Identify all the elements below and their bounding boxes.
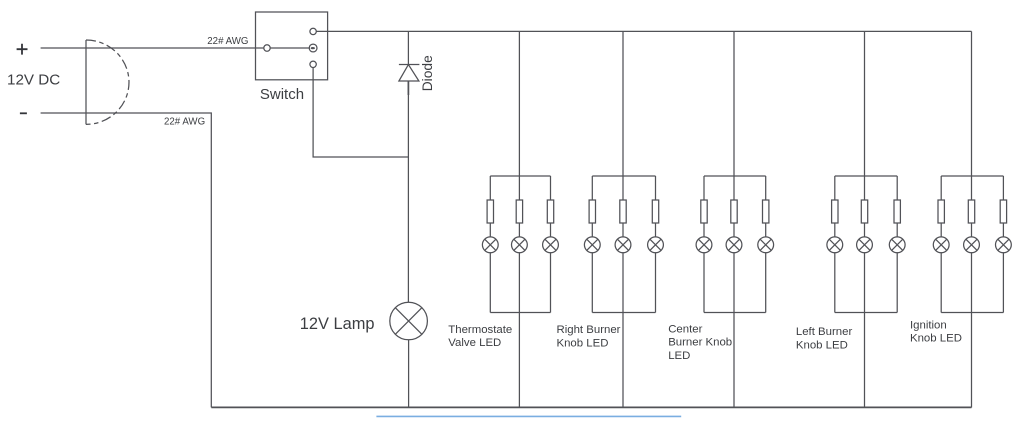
group label Center Burner Knob LED xyxy=(668,323,732,362)
wire ignition knob top rail xyxy=(941,175,1003,177)
LED lamp center burner knob mid xyxy=(726,237,742,253)
switch S1 body xyxy=(256,12,328,80)
wire center burner knob right branch mid xyxy=(765,223,767,237)
svg-text:Burner Knob: Burner Knob xyxy=(668,337,732,349)
wire ignition knob mid branch bottom xyxy=(971,252,973,407)
wire ignition knob right branch mid xyxy=(1002,223,1004,237)
group label Ignition Knob LED xyxy=(910,319,962,344)
fuse center burner knob mid xyxy=(731,200,737,223)
wire center burner knob right branch top xyxy=(765,176,767,200)
wire left burner knob right branch top xyxy=(896,176,898,200)
svg-text:12V Lamp: 12V Lamp xyxy=(300,315,375,333)
fuse thermostate valve mid xyxy=(516,200,522,223)
svg-text:Knob LED: Knob LED xyxy=(796,339,848,351)
wire right burner knob right branch top xyxy=(655,176,657,200)
wire right burner knob left branch bottom xyxy=(591,252,593,312)
wire negative: left run, down, and bottom bus to right end xyxy=(41,113,212,407)
fuse center burner knob left xyxy=(701,200,707,223)
LED lamp thermostate valve right xyxy=(543,237,559,253)
wire thermostate valve mid branch mid xyxy=(518,223,520,237)
wire thermostate valve right branch bottom xyxy=(550,252,552,312)
LED lamp center burner knob left xyxy=(696,237,712,253)
fuse right burner knob left xyxy=(589,200,595,223)
fuse thermostate valve right xyxy=(547,200,553,223)
LED lamp right burner knob mid xyxy=(615,237,631,253)
wire thermostate valve bus from top xyxy=(518,31,520,200)
wire right burner knob bottom rail xyxy=(592,312,655,314)
wire center burner knob left branch mid xyxy=(703,223,705,237)
wire center burner knob bottom rail xyxy=(704,312,766,314)
wire left burner knob bottom rail xyxy=(835,312,897,314)
wire ignition knob left branch top xyxy=(940,176,942,200)
wire left burner knob left branch mid xyxy=(834,223,836,237)
svg-text:22# AWG: 22# AWG xyxy=(164,117,205,128)
wire bottom bus xyxy=(211,406,971,408)
wire right burner knob top rail xyxy=(592,175,655,177)
fuse center burner knob right xyxy=(763,200,769,223)
LED lamp ignition knob mid xyxy=(964,237,980,253)
fuse right burner knob right xyxy=(652,200,658,223)
fuse right burner knob mid xyxy=(620,200,626,223)
wire center burner knob mid branch bottom xyxy=(733,252,735,407)
wire thermostate valve left branch mid xyxy=(489,223,491,237)
wire ignition knob right branch bottom xyxy=(1002,252,1004,312)
fuse left burner knob left xyxy=(832,200,838,223)
fuse left burner knob mid xyxy=(861,200,867,223)
wire ignition knob bus from top xyxy=(971,31,973,200)
wire left burner knob left branch bottom xyxy=(834,252,836,312)
svg-text:Valve LED: Valve LED xyxy=(448,337,501,349)
LED lamp thermostate valve mid xyxy=(512,237,528,253)
LED lamp left burner knob left xyxy=(827,237,843,253)
blue underline xyxy=(376,415,681,417)
wire left burner knob left branch top xyxy=(834,176,836,200)
fuse left burner knob right xyxy=(894,200,900,223)
wire lamp to bottom bus xyxy=(408,340,410,408)
group label Right Burner Knob LED xyxy=(557,324,621,349)
wire center burner knob bus from top xyxy=(733,31,735,200)
wire right burner knob left branch mid xyxy=(591,223,593,237)
diode D1 cathode bar xyxy=(399,64,420,66)
group label Thermostate Valve LED xyxy=(448,324,512,349)
wire right burner knob right branch bottom xyxy=(655,252,657,312)
diode D1 triangle xyxy=(399,65,419,81)
svg-text:Diode: Diode xyxy=(420,55,435,91)
wire center burner knob mid branch mid xyxy=(733,223,735,237)
wire diode to lamp xyxy=(407,81,409,302)
switch pin right-top xyxy=(310,28,316,34)
fuse ignition knob right xyxy=(1000,200,1006,223)
minus terminal symbol xyxy=(20,112,27,114)
wire left burner knob mid branch bottom xyxy=(864,252,866,407)
wire positive from + to switch pin xyxy=(41,47,264,49)
plus terminal symbol xyxy=(17,44,28,55)
LED lamp center burner knob right xyxy=(758,237,774,253)
wire ignition knob left branch bottom xyxy=(940,252,942,312)
lamp DS1 12V symbol xyxy=(390,302,428,340)
LED lamp left burner knob mid xyxy=(857,237,873,253)
wire right burner knob mid branch bottom xyxy=(622,252,624,407)
switch pin right-bottom xyxy=(310,61,316,67)
wire diode cathode lead (emphasis) xyxy=(407,82,409,96)
LED lamp right burner knob right xyxy=(648,237,664,253)
wire center burner knob left branch top xyxy=(703,176,705,200)
svg-text:Knob LED: Knob LED xyxy=(557,337,609,349)
wire right burner knob mid branch mid xyxy=(622,223,624,237)
switch pin left xyxy=(264,45,270,51)
wire thermostate valve right branch mid xyxy=(550,223,552,237)
wire thermostate valve bottom rail xyxy=(490,312,550,314)
svg-text:22# AWG: 22# AWG xyxy=(207,36,248,47)
wire center burner knob right branch bottom xyxy=(765,252,767,312)
wire thermostate valve mid branch bottom xyxy=(518,252,520,407)
wire left burner knob right branch bottom xyxy=(896,252,898,312)
group label Left Burner Knob LED xyxy=(796,326,853,351)
wire from switch bottom pin to diode node xyxy=(313,68,408,158)
wire right burner knob left branch top xyxy=(591,176,593,200)
wire left burner knob mid branch mid xyxy=(864,223,866,237)
wire right burner knob bus from top xyxy=(622,31,624,200)
wire ignition knob mid branch mid xyxy=(971,223,973,237)
LED lamp left burner knob right xyxy=(889,237,905,253)
fuse ignition knob left xyxy=(938,200,944,223)
svg-text:Left Burner: Left Burner xyxy=(796,326,853,338)
wire left burner knob top rail xyxy=(835,175,897,177)
wire ignition knob right branch top xyxy=(1002,176,1004,200)
fuse ignition knob mid xyxy=(968,200,974,223)
wire thermostate valve right branch top xyxy=(550,176,552,200)
wire top bus from switch to right end xyxy=(316,30,971,32)
wire center burner knob top rail xyxy=(704,175,766,177)
connector J1 dashed semicircle xyxy=(86,40,129,124)
wire center burner knob left branch bottom xyxy=(703,252,705,312)
wire ignition knob bottom rail xyxy=(941,312,1003,314)
connector J1 body (vertical bar) xyxy=(85,40,87,124)
svg-text:LED: LED xyxy=(668,350,690,362)
wire right burner knob right branch mid xyxy=(655,223,657,237)
LED lamp right burner knob left xyxy=(584,237,600,253)
LED lamp ignition knob left xyxy=(933,237,949,253)
switch internal wire xyxy=(270,47,310,49)
wire thermostate valve left branch top xyxy=(489,176,491,200)
svg-text:Ignition: Ignition xyxy=(910,319,947,331)
LED lamp ignition knob right xyxy=(996,237,1012,253)
fuse thermostate valve left xyxy=(487,200,493,223)
wire left burner knob right branch mid xyxy=(896,223,898,237)
switch pin right-middle (common) xyxy=(309,44,317,52)
wire left burner knob bus from top xyxy=(864,31,866,200)
wire thermostate valve left branch bottom xyxy=(489,252,491,312)
svg-text:12V DC: 12V DC xyxy=(7,71,60,88)
svg-text:Right Burner: Right Burner xyxy=(557,324,621,336)
svg-text:Center: Center xyxy=(668,323,702,335)
svg-text:Thermostate: Thermostate xyxy=(448,324,512,336)
wire diode anode from top bus xyxy=(407,31,409,64)
svg-text:Switch: Switch xyxy=(260,86,304,103)
LED lamp thermostate valve left xyxy=(482,237,498,253)
wire ignition knob left branch mid xyxy=(940,223,942,237)
svg-text:Knob LED: Knob LED xyxy=(910,333,962,345)
wire thermostate valve top rail xyxy=(490,175,550,177)
